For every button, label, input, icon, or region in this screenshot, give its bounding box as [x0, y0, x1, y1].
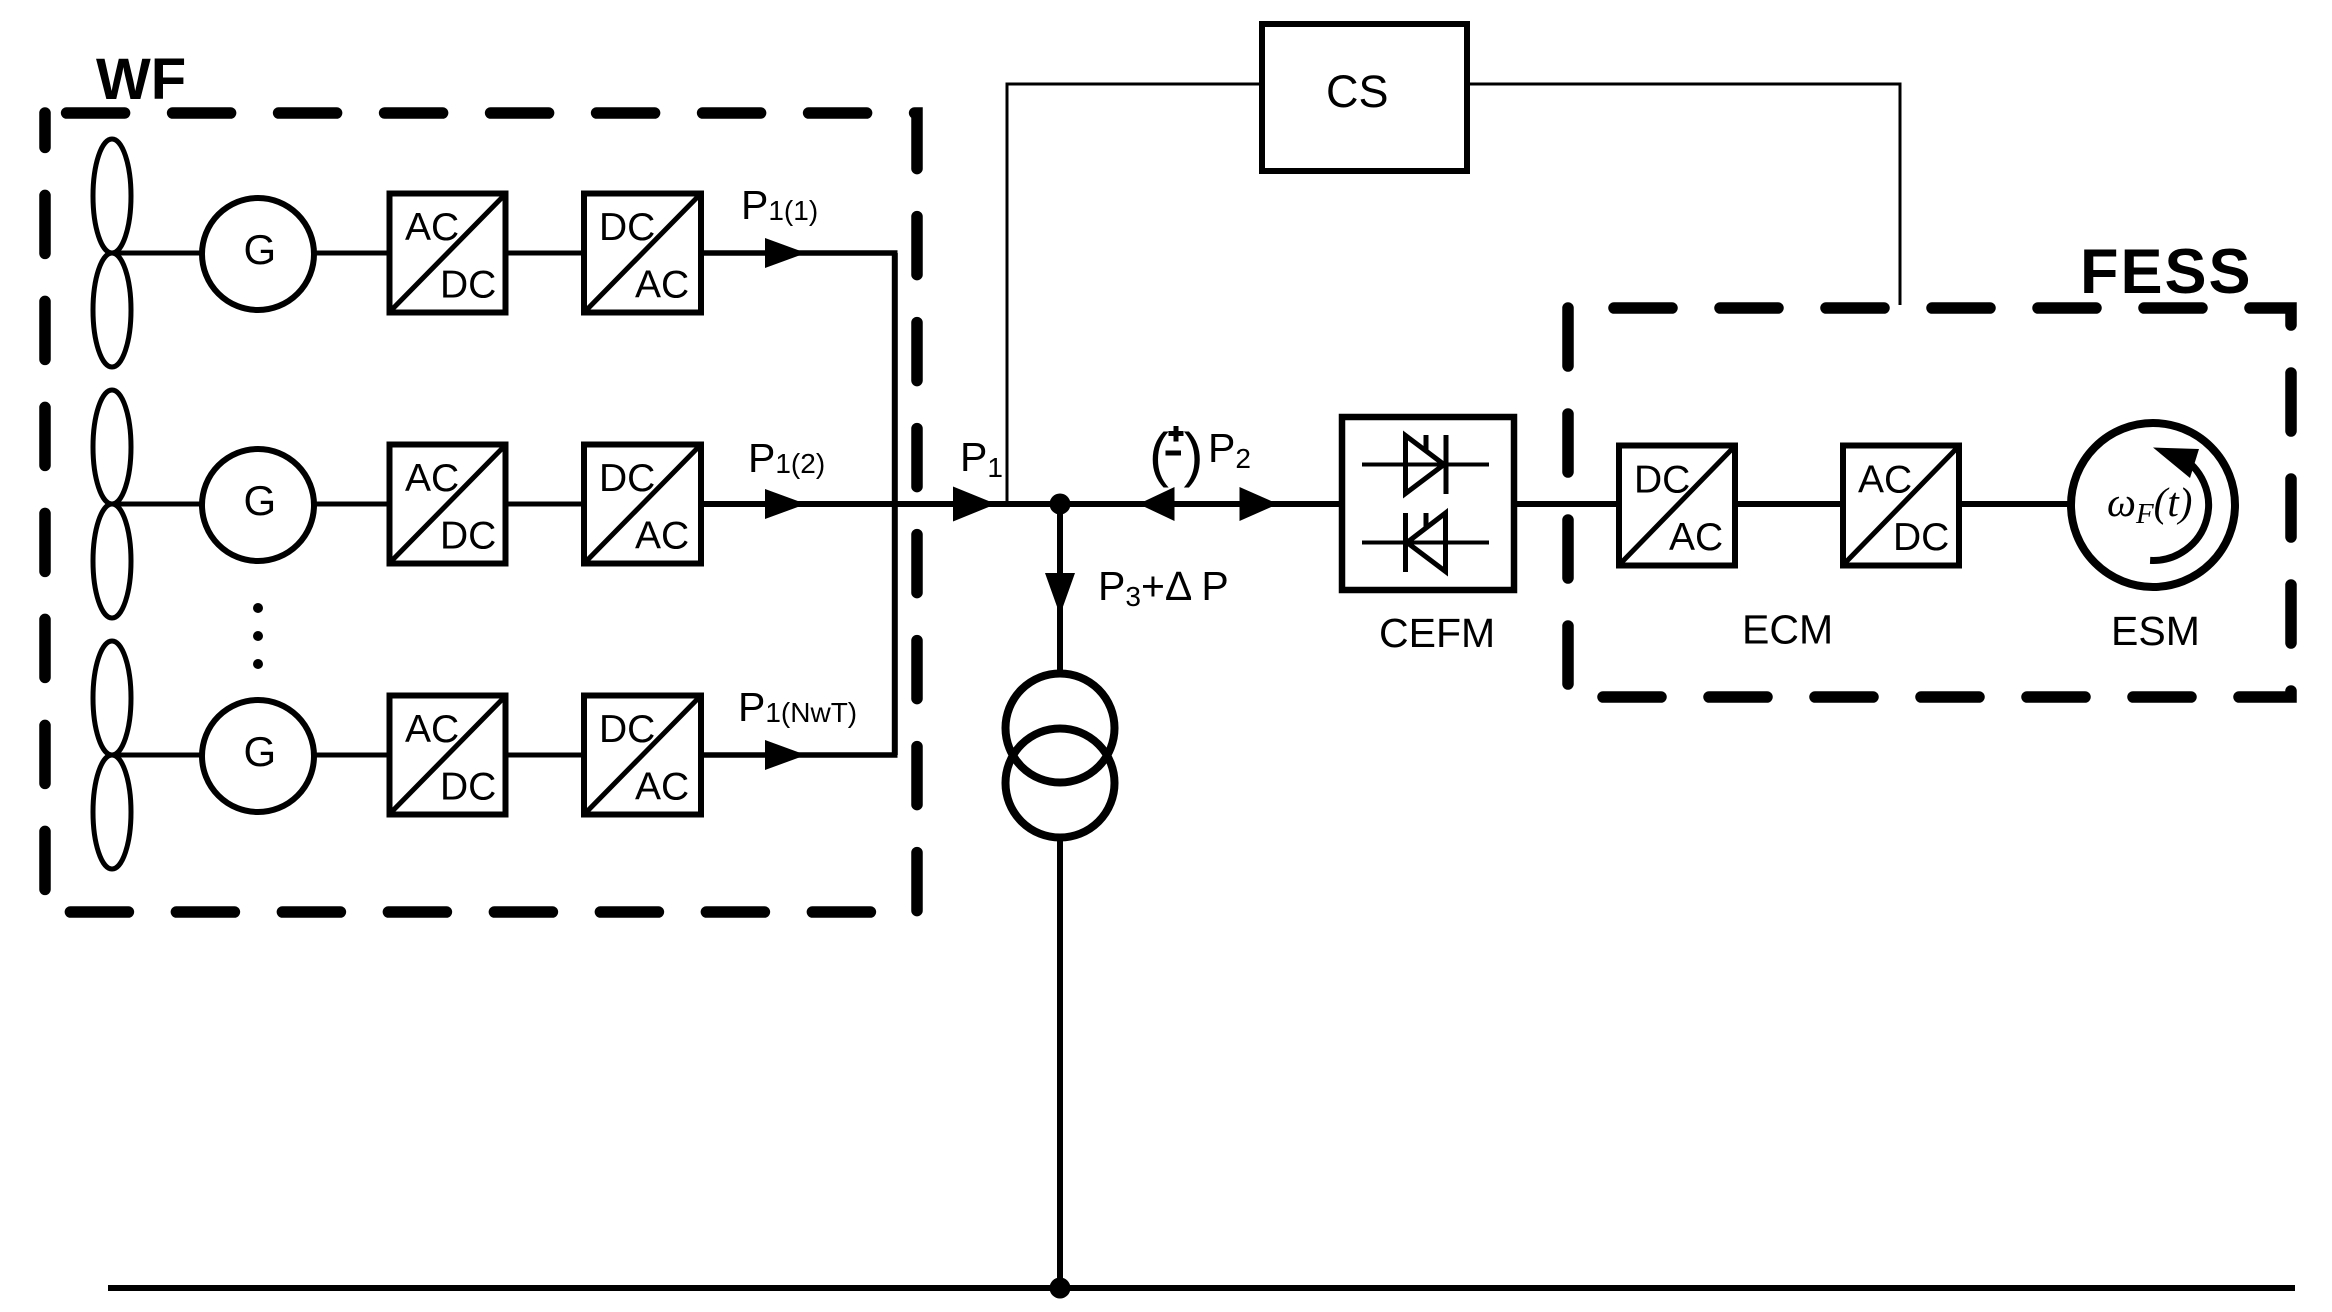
node junction dot [1050, 494, 1071, 515]
generator G1 [202, 198, 314, 310]
wire hub2 to G2 [112, 502, 203, 507]
svg-text:AC: AC [635, 515, 689, 558]
CEFM box [1342, 417, 1514, 590]
wire transformer to grid bus [1057, 837, 1063, 1288]
svg-text:G: G [244, 477, 277, 524]
svg-text:DC: DC [440, 766, 496, 809]
thin wire CS to node [1007, 84, 1262, 502]
grid node dot [1050, 1278, 1071, 1299]
svg-text:AC: AC [405, 457, 459, 500]
svg-text:DC: DC [440, 515, 496, 558]
svg-text:P3+Δ P: P3+Δ P [1098, 563, 1229, 612]
svg-text:AC: AC [1669, 516, 1723, 559]
svg-text:G: G [244, 728, 277, 775]
svg-text:DC: DC [599, 206, 655, 249]
wire row3 output [701, 752, 898, 758]
rotation arrowhead [2153, 448, 2199, 479]
turbine 2 blades [93, 390, 131, 618]
svg-text:DC: DC [599, 457, 655, 500]
svg-text:DC: DC [1893, 516, 1949, 559]
collector vertical wire [892, 253, 898, 755]
svg-text:DC: DC [440, 264, 496, 307]
svg-text:WF: WF [96, 47, 186, 112]
inverter DC/AC row2 [584, 445, 701, 564]
wire AC/DC to flywheel [1959, 501, 2072, 507]
svg-text:CEFM: CEFM [1379, 610, 1495, 656]
converter AC/DC FESS [1843, 446, 1959, 566]
main bus wire to CEFM [701, 501, 1342, 507]
arrow P3 down [1045, 573, 1075, 615]
generator G2 [202, 449, 314, 561]
CS feedback box [1262, 24, 1467, 171]
wire G2 to AC/DC converter 2 [314, 502, 390, 507]
arrow P1(1) [765, 238, 806, 268]
converter AC/DC row1 [390, 194, 506, 313]
arrow P1 into node [953, 487, 996, 522]
svg-text:AC: AC [1858, 459, 1912, 502]
svg-text:DC: DC [599, 708, 655, 751]
wire row1 output [701, 250, 898, 256]
svg-text:): ) [1184, 421, 1204, 488]
wire DC/AC to AC/DC [1735, 501, 1843, 507]
svg-text:FESS: FESS [2080, 237, 2253, 307]
wire CEFM to DC/AC [1514, 501, 1619, 507]
arrow P2 toward CEFM [1240, 487, 1279, 521]
svg-text:DC: DC [1634, 459, 1690, 502]
transformer upper winding [1006, 674, 1115, 783]
vertical ellipsis dots between rows [253, 603, 263, 669]
generator G3 [202, 700, 314, 812]
grid bus line [108, 1285, 2295, 1291]
wire converter2 to inverter2 [506, 502, 585, 507]
arrow P1(2) [765, 489, 806, 519]
transformer lower winding [1006, 729, 1115, 838]
svg-text:CS: CS [1326, 66, 1389, 117]
label (+/-)P2 [1149, 421, 1251, 488]
svg-text:AC: AC [635, 264, 689, 307]
inverter DC/AC row1 [584, 194, 701, 313]
wire node down to transformer [1057, 504, 1063, 676]
svg-text:AC: AC [405, 708, 459, 751]
arrow P2 toward node [1139, 487, 1175, 521]
wire G3 to AC/DC converter 3 [314, 753, 390, 758]
svg-text:ESM: ESM [2111, 608, 2200, 654]
converter AC/DC row3 [390, 696, 506, 815]
thyristor upper [1362, 435, 1489, 494]
inverter DC/AC FESS [1619, 446, 1735, 566]
wire G1 to AC/DC converter 1 [314, 251, 390, 256]
wire converter3 to inverter3 [506, 753, 585, 758]
thyristor lower [1362, 513, 1489, 572]
svg-text:G: G [244, 226, 277, 273]
WF dashed enclosure box [45, 113, 917, 912]
converter AC/DC row2 [390, 445, 506, 564]
wire hub1 to G1 [112, 251, 203, 256]
turbine 3 blades [93, 641, 131, 869]
FESS dashed enclosure box [1568, 308, 2291, 697]
arrow P1(NwT) [765, 740, 806, 770]
svg-text:ECM: ECM [1742, 607, 1833, 653]
flywheel machine ESM circle [2071, 423, 2235, 587]
svg-text:AC: AC [405, 206, 459, 249]
rotation arc [2150, 456, 2208, 561]
thin wire CS to FESS [1467, 84, 1900, 305]
inverter DC/AC row3 [584, 696, 701, 815]
svg-text:AC: AC [635, 766, 689, 809]
turbine 1 blades [93, 139, 131, 367]
wire hub3 to G3 [112, 753, 203, 758]
wire converter1 to inverter1 [506, 251, 585, 256]
